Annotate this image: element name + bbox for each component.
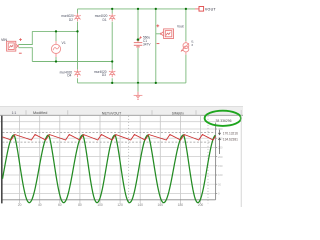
svg-text:100: 100 (97, 203, 103, 207)
capacitor C1 plus mark (139, 36, 142, 39)
wire VOUT flag stub (195, 8, 199, 10)
svg-text:50: 50 (218, 182, 221, 186)
svg-text:20: 20 (18, 203, 22, 207)
svg-text:200: 200 (198, 203, 204, 207)
node V1 bottom junction (55, 60, 57, 62)
capacitor C1 (134, 40, 143, 48)
svg-text:1:1: 1:1 (12, 111, 17, 115)
diode D1 (109, 14, 115, 22)
net flag VOUT (199, 7, 216, 12)
wire V1 branch (55, 31, 57, 61)
wire top rail VOUT net (78, 8, 196, 10)
svg-text:3: 3 (191, 43, 193, 47)
svg-text:134.62381: 134.62381 (223, 137, 238, 141)
svg-text:VIN: VIN (1, 38, 7, 42)
svg-text:NETxVOUT: NETxVOUT (102, 112, 122, 116)
diode D4 (74, 69, 80, 77)
svg-text:Modified: Modified (33, 111, 47, 115)
wire C1 branch (137, 9, 139, 83)
svg-text:100: 100 (218, 173, 223, 177)
port Vout plus mark (156, 24, 159, 27)
svg-text:D4: D4 (67, 73, 71, 77)
wire D1 D3 branch (111, 9, 113, 83)
svg-text:160: 160 (158, 203, 164, 207)
node ground junction (137, 82, 139, 84)
svg-text:38.336296: 38.336296 (216, 119, 232, 123)
wire D2 D4 branch (77, 9, 79, 83)
svg-text:250: 250 (218, 146, 223, 150)
svg-text:200: 200 (218, 155, 223, 159)
wire VIN port minus stub (18, 48, 32, 62)
svg-text:150: 150 (218, 164, 223, 168)
current source I1 (181, 41, 189, 54)
node bridge AC1 junction (76, 30, 78, 32)
voltage source V1 (51, 41, 60, 57)
node probe top junction (155, 8, 157, 10)
wire bottom 0V rail (78, 82, 186, 84)
node D1 top junction (111, 8, 113, 10)
node V1 top junction (55, 30, 57, 32)
svg-text:D3: D3 (102, 73, 106, 77)
port Vout probe (160, 29, 173, 39)
ground symbol (134, 92, 143, 100)
svg-text:D1: D1 (103, 18, 107, 22)
svg-text:170.13216: 170.13216 (223, 131, 238, 135)
wire VIN+ rail (32, 30, 77, 32)
svg-text:D2: D2 (69, 18, 73, 22)
svg-text:80: 80 (78, 203, 82, 207)
wire Vout probe branch (156, 9, 161, 83)
svg-text:120: 120 (117, 203, 123, 207)
svg-text:Vout: Vout (177, 24, 184, 28)
svg-text:V1: V1 (62, 41, 66, 45)
node D3 bottom junction (111, 82, 113, 84)
svg-text:60: 60 (58, 203, 62, 207)
svg-text:347V: 347V (143, 43, 151, 47)
port VIN minus mark (19, 52, 22, 54)
wire VIN- rail (32, 61, 112, 63)
port Vout minus mark (157, 43, 160, 45)
diode D2 (74, 14, 80, 22)
port VIN plus mark (19, 38, 22, 41)
wire I1 branch (185, 9, 187, 83)
wire VIN port plus stub (18, 31, 32, 44)
svg-text:VOUT: VOUT (205, 8, 217, 12)
svg-text:40: 40 (38, 203, 42, 207)
svg-text:SIMetrix: SIMetrix (172, 112, 184, 116)
port VIN (7, 41, 19, 51)
node bridge AC2 junction (111, 60, 113, 62)
svg-text:140: 140 (137, 203, 143, 207)
svg-text:180: 180 (178, 203, 184, 207)
node C1 top junction (137, 8, 139, 10)
node I1 top junction (185, 8, 187, 10)
diode D3 (109, 69, 115, 77)
node C1 pin junction (137, 38, 140, 41)
node probe bottom junction (155, 82, 157, 84)
ground stub wire (137, 83, 139, 92)
